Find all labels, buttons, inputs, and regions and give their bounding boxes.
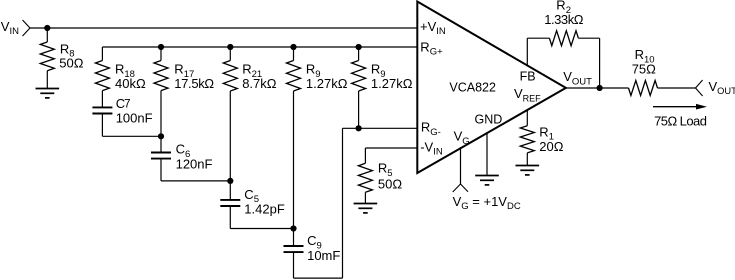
label VG = +1VDC bbox=[453, 194, 521, 212]
wire R5 top lead bbox=[364, 148, 366, 163]
wire FB loop riser bbox=[599, 38, 601, 88]
wire FB loop left bbox=[527, 37, 549, 39]
label R2 bbox=[556, 0, 571, 16]
node output junction bbox=[597, 85, 603, 91]
svg-text:17.5kΩ: 17.5kΩ bbox=[174, 76, 214, 91]
wire gain rail to RG+ pin bbox=[102, 46, 417, 48]
label R10 bbox=[635, 47, 655, 65]
wire C6 bottom lead bbox=[160, 159, 162, 181]
label C5 bbox=[244, 187, 259, 205]
connector VG bbox=[453, 184, 468, 192]
wire R9a bottom lead bbox=[293, 91, 295, 229]
svg-text:-VIN​: -VIN​ bbox=[420, 139, 443, 157]
label R8 value 50 ohm bbox=[59, 55, 83, 70]
label R17 bbox=[174, 62, 194, 80]
wire R1 bottom lead bbox=[526, 153, 528, 166]
label R9 second value 1.27k bbox=[371, 76, 413, 91]
svg-text:20Ω: 20Ω bbox=[539, 139, 563, 154]
ground under R5 bbox=[354, 204, 378, 213]
svg-text:VCA822: VCA822 bbox=[449, 81, 496, 95]
wire R9b bottom lead bbox=[358, 91, 360, 128]
wire R9b top lead bbox=[358, 47, 360, 61]
pin label GND bbox=[475, 112, 503, 126]
svg-text:1.27kΩ: 1.27kΩ bbox=[371, 76, 413, 91]
wire bottom rail bbox=[294, 277, 343, 279]
wire C9 top lead bbox=[293, 229, 295, 247]
wire rail C5 to R9a bottom bbox=[230, 228, 293, 230]
svg-text:50Ω: 50Ω bbox=[59, 55, 83, 70]
label R18 value 40k bbox=[115, 76, 146, 91]
node R9a top bbox=[290, 44, 296, 50]
wire FB lead bbox=[526, 38, 528, 66]
node R17 top bbox=[158, 44, 164, 50]
svg-text:VG​: VG​ bbox=[454, 129, 470, 147]
wire R17 bottom lead bbox=[160, 91, 162, 137]
svg-text:VOUT​: VOUT​ bbox=[709, 79, 735, 96]
wire R8 bottom lead bbox=[46, 71, 48, 89]
pin label VREF bbox=[514, 86, 541, 103]
label R18 bbox=[115, 62, 135, 80]
label R9 first bbox=[306, 62, 321, 80]
op-amp U1 VCA822 triangle bbox=[417, 2, 566, 174]
wire riser to RG- wire bbox=[342, 128, 344, 278]
resistor R9 second bbox=[352, 61, 366, 92]
svg-text:1.33kΩ: 1.33kΩ bbox=[544, 12, 584, 27]
wire rail C6 to R21 bottom bbox=[161, 180, 230, 182]
svg-text:75Ω: 75Ω bbox=[632, 62, 656, 77]
pin label RG- bbox=[421, 120, 441, 138]
label C7 bbox=[116, 96, 131, 111]
svg-text:1.27kΩ: 1.27kΩ bbox=[306, 76, 348, 91]
svg-text:VOUT​: VOUT​ bbox=[563, 69, 592, 87]
svg-text:+VIN​: +VIN​ bbox=[420, 19, 446, 37]
svg-text:VG​ = +1VDC​: VG​ = +1VDC​ bbox=[453, 194, 521, 212]
svg-text:100nF: 100nF bbox=[116, 111, 153, 126]
label R2 value 1.33k bbox=[544, 12, 584, 27]
pin label -V_IN bbox=[420, 139, 443, 157]
svg-text:8.7kΩ: 8.7kΩ bbox=[242, 76, 277, 91]
resistor R18 bbox=[95, 61, 109, 91]
label R9 second bbox=[371, 62, 386, 80]
node R17 bottom junction bbox=[158, 133, 164, 139]
resistor R1 bbox=[520, 126, 534, 153]
resistor R8 bbox=[40, 42, 54, 71]
resistor R21 bbox=[223, 61, 237, 92]
node R9b bottom junction bbox=[356, 125, 362, 131]
svg-text:7: 7 bbox=[124, 99, 130, 111]
svg-text:RG+​: RG+​ bbox=[420, 39, 443, 57]
capacitor C7 bbox=[92, 107, 112, 113]
wire VREF lead bbox=[526, 109, 528, 126]
node R21 top bbox=[227, 44, 233, 50]
resistor R2 bbox=[549, 31, 578, 46]
wire R18 to C7 bbox=[101, 91, 103, 108]
capacitor C5 bbox=[220, 200, 240, 206]
node input junction bbox=[44, 25, 50, 31]
input connector V_IN bbox=[23, 20, 31, 36]
label 75 ohm load bbox=[654, 113, 707, 128]
pin label FB bbox=[520, 69, 536, 83]
label C6 bbox=[176, 142, 191, 160]
svg-text:RG-​: RG-​ bbox=[421, 120, 441, 138]
pin label VG bbox=[454, 129, 470, 147]
svg-text:FB: FB bbox=[520, 69, 536, 83]
label R9 first value 1.27k bbox=[306, 76, 348, 91]
resistor R17 bbox=[154, 61, 168, 91]
wire R21 bottom lead bbox=[229, 91, 231, 181]
label C9 value 10mF bbox=[307, 248, 340, 263]
node R9a bottom junction bbox=[290, 225, 296, 231]
label R17 value 17.5k bbox=[174, 76, 214, 91]
resistor R5 bbox=[358, 163, 372, 192]
svg-text:40kΩ: 40kΩ bbox=[115, 76, 146, 91]
pin label RG+ bbox=[420, 39, 443, 57]
load arrow bbox=[653, 104, 707, 110]
wire C5 top lead bbox=[229, 181, 231, 200]
label V_OUT output bbox=[709, 79, 735, 96]
wire VG pin lead bbox=[460, 147, 462, 184]
output connector V_OUT bbox=[696, 80, 703, 96]
ground under R8 bbox=[36, 89, 60, 98]
wire rail C7 to R17 bottom bbox=[102, 135, 161, 137]
wire -V_IN to amp bbox=[365, 147, 417, 149]
wire R8 top lead bbox=[46, 28, 48, 42]
capacitor C6 bbox=[151, 153, 171, 159]
wire C6 top lead bbox=[160, 136, 162, 152]
wire GND pin lead bbox=[486, 132, 488, 175]
wire R5 bottom lead bbox=[364, 192, 366, 203]
svg-text:120nF: 120nF bbox=[176, 157, 213, 172]
wire C9 bottom lead bbox=[293, 252, 295, 278]
wire R21 top lead bbox=[229, 47, 231, 61]
label V_OUT at amp tip bbox=[563, 69, 592, 87]
label C5 value 1.42pF bbox=[244, 201, 285, 216]
label R1 value 20 ohm bbox=[539, 139, 563, 154]
svg-text:1.42pF: 1.42pF bbox=[244, 201, 285, 216]
label VCA822 bbox=[449, 81, 496, 95]
label C9 bbox=[307, 233, 322, 251]
label R5 value 50 ohm bbox=[378, 176, 402, 191]
resistor R10 bbox=[629, 81, 658, 96]
svg-text:50Ω: 50Ω bbox=[378, 176, 402, 191]
label C7 value 100nF bbox=[116, 111, 153, 126]
wire input to +V_IN pin bbox=[30, 27, 417, 29]
label R1 bbox=[539, 124, 554, 142]
label R21 bbox=[242, 62, 262, 80]
label C6 value 120nF bbox=[176, 157, 213, 172]
wire output to connector bbox=[658, 87, 696, 89]
ground under GND pin bbox=[475, 176, 499, 185]
svg-text:75Ω Load: 75Ω Load bbox=[654, 113, 707, 128]
wire RG- to amp bbox=[343, 127, 418, 129]
svg-text:VIN​: VIN​ bbox=[1, 19, 19, 37]
wire C5 bottom lead bbox=[229, 206, 231, 229]
wire output bbox=[566, 87, 629, 89]
node R21 bottom junction bbox=[227, 178, 233, 184]
label R5 bbox=[378, 161, 393, 179]
capacitor C9 bbox=[284, 246, 304, 252]
wire C7 bottom lead bbox=[101, 114, 103, 137]
resistor R9 first bbox=[287, 61, 301, 92]
label V_IN bbox=[1, 19, 19, 37]
wire R18 top lead bbox=[101, 47, 103, 61]
svg-text:10mF: 10mF bbox=[307, 248, 340, 263]
label R10 value 75 ohm bbox=[632, 62, 656, 77]
node R9b top bbox=[356, 44, 362, 50]
wire FB loop right bbox=[578, 37, 599, 39]
wire R9a top lead bbox=[293, 47, 295, 61]
svg-text:VREF​: VREF​ bbox=[514, 86, 541, 103]
ground under R1 bbox=[516, 166, 540, 175]
label R21 value 8.7k bbox=[242, 76, 277, 91]
pin label +V_IN bbox=[420, 19, 446, 37]
label R8 bbox=[60, 41, 75, 59]
svg-text:GND: GND bbox=[475, 112, 503, 126]
wire R17 top lead bbox=[160, 47, 162, 61]
